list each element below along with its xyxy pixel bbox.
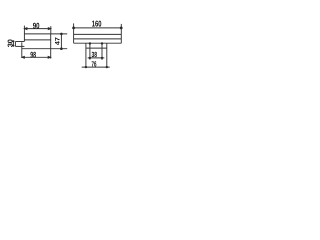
node dot 38 top right xyxy=(101,42,103,44)
svg-text:30: 30 xyxy=(7,39,14,47)
wire plate top xyxy=(74,33,122,35)
wire tab edge left / ext 38 xyxy=(89,43,91,59)
wire ext left 160 xyxy=(73,23,75,34)
svg-text:47: 47 xyxy=(54,37,61,45)
arrow dim160 left xyxy=(72,27,75,30)
wire tab bottom xyxy=(15,45,24,47)
arrow dim47 top xyxy=(60,33,63,36)
node dot 38 top left xyxy=(89,42,91,44)
arrow dim76 right xyxy=(106,66,108,68)
svg-text:38: 38 xyxy=(92,50,98,59)
arrow dim90 right xyxy=(48,27,52,30)
svg-text:90: 90 xyxy=(33,20,40,30)
wire dim 47 line xyxy=(60,34,62,49)
wire plate left edge xyxy=(73,34,75,43)
wire part right edge xyxy=(50,34,52,59)
wire boss left / ext 76 xyxy=(85,43,87,67)
wire dim 98 line xyxy=(22,56,51,58)
wire plate right edge xyxy=(120,34,122,43)
arrow dim160 right xyxy=(120,27,123,30)
wire tab left edge xyxy=(14,42,16,47)
wire plate bottom xyxy=(74,42,122,44)
wire dim 90 line xyxy=(24,28,50,30)
wire dim 76 line xyxy=(82,66,110,68)
arrow dim98 left xyxy=(21,56,25,59)
wire dim 38 line xyxy=(88,57,105,59)
wire dim 160 line xyxy=(74,27,122,29)
wire top face xyxy=(24,33,67,35)
wire ext left 90 xyxy=(23,26,25,42)
arrow dim38 left xyxy=(89,57,91,59)
wire ext right 90 xyxy=(50,26,52,34)
arrow dim98 right xyxy=(48,56,52,59)
arrow dim30 bottom xyxy=(12,45,14,47)
wire dim 30 line xyxy=(12,41,14,47)
wire tab top xyxy=(15,41,24,43)
arrow dim76 left xyxy=(85,66,87,68)
svg-text:160: 160 xyxy=(92,19,102,29)
svg-text:98: 98 xyxy=(30,49,36,59)
arrow dim38 right xyxy=(101,57,103,59)
arrow dim90 left xyxy=(23,27,27,30)
svg-text:76: 76 xyxy=(92,59,97,68)
wire boss right / ext 76 xyxy=(106,43,108,67)
wire ext left 98 xyxy=(21,42,23,58)
wire bottom face xyxy=(22,48,67,50)
wire step line xyxy=(24,39,50,41)
wire boss line xyxy=(86,47,107,49)
wire ext right 160 xyxy=(120,24,122,35)
arrow dim30 top xyxy=(12,40,14,42)
wire plate mid xyxy=(74,38,122,40)
arrow dim47 bottom xyxy=(60,47,63,50)
wire tab edge right / ext 38 xyxy=(101,43,103,60)
